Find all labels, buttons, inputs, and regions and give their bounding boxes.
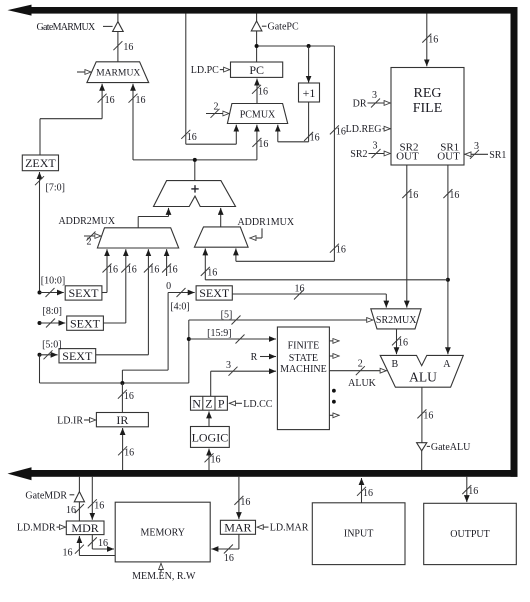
wire ZEXT to MARMUX input1 (40, 84, 115, 155)
sign extender SEXT[8:0] (67, 316, 104, 330)
wire IR output net (horizontal) (40, 355, 189, 385)
wire IR[8:0] tap (38, 306, 66, 327)
svg-text:16: 16 (336, 245, 346, 256)
svg-text:FILE: FILE (413, 101, 443, 116)
svg-text:[5]: [5] (221, 309, 233, 320)
ALU (380, 355, 463, 387)
register ZEXT (22, 155, 58, 171)
register file REG FILE (391, 68, 464, 166)
svg-text:16: 16 (468, 486, 478, 497)
FSM ellipsis dots (332, 389, 336, 404)
svg-text:16: 16 (310, 132, 320, 143)
svg-text:16: 16 (105, 95, 115, 106)
svg-text:16: 16 (94, 500, 104, 511)
svg-text:PC: PC (249, 63, 264, 77)
svg-text:MEM.EN, R.W: MEM.EN, R.W (132, 571, 196, 582)
sign extender SEXT[4:0] (196, 286, 232, 300)
wire IR to net (118, 383, 134, 413)
svg-text:16: 16 (398, 337, 408, 348)
svg-text:2: 2 (358, 358, 363, 369)
wire ADDR2MUX input3 from SEXT[5:0] (96, 249, 160, 355)
wire ADDR2MUX input4 constant 0 (162, 249, 178, 292)
svg-text:MAR: MAR (224, 521, 251, 535)
svg-text:P: P (218, 396, 225, 410)
svg-text:16: 16 (136, 95, 146, 106)
svg-text:[15:9]: [15:9] (207, 328, 231, 339)
wire into incrementer (308, 46, 310, 83)
svg-text:16: 16 (123, 42, 133, 53)
wire MAR to MEMORY (211, 534, 239, 564)
svg-text:0: 0 (166, 281, 171, 292)
wire MDR to MEMORY (88, 535, 114, 550)
svg-text:[10:0]: [10:0] (41, 276, 65, 287)
sign extender SEXT[5:0] (59, 349, 96, 363)
register PC (231, 62, 283, 77)
svg-text:SR2: SR2 (350, 149, 367, 160)
svg-text:GateMARMUX: GateMARMUX (37, 22, 96, 33)
wire bus to LOGIC (205, 449, 221, 470)
svg-text:16: 16 (258, 139, 268, 150)
svg-text:16: 16 (66, 505, 76, 516)
svg-text:16: 16 (108, 265, 118, 276)
svg-text:16: 16 (211, 455, 221, 466)
svg-text:SEXT: SEXT (69, 286, 100, 300)
svg-text:LD.IR: LD.IR (57, 415, 83, 426)
wire MARMUX2-adder-PCMUX2 net (133, 125, 268, 162)
svg-text:INPUT: INPUT (344, 528, 373, 539)
svg-text:A: A (443, 359, 451, 370)
svg-text:3: 3 (474, 141, 479, 152)
wire SR2OUT to SR2MUX (402, 165, 418, 308)
svg-text:LD.MDR: LD.MDR (17, 523, 56, 534)
wire SR2MUX out to ALU B (392, 329, 408, 354)
wire IR[5] to SR2MUX select (189, 309, 373, 324)
svg-text:[8:0]: [8:0] (43, 306, 62, 317)
adder (PC offset adder) (154, 181, 236, 207)
svg-text:DR: DR (353, 98, 367, 109)
condition codes NZP (191, 396, 228, 410)
control LD.PC (191, 65, 230, 76)
bus right segment (511, 7, 518, 477)
wire NZP to FSM (3) (211, 360, 276, 396)
wire bus to MAR (234, 477, 250, 519)
wire +1 out to PCMUX input3 (278, 102, 320, 143)
svg-text:MACHINE: MACHINE (280, 364, 327, 375)
mux SR2MUX (371, 309, 421, 329)
svg-text:3: 3 (373, 141, 378, 152)
svg-text:SEXT: SEXT (70, 316, 101, 330)
mux ADDR1MUX (194, 227, 248, 247)
svg-text:N: N (192, 396, 201, 410)
wire ADDR2MUX input2 from SEXT[8:0] (103, 249, 136, 323)
control MEM.EN, R.W (132, 563, 196, 582)
svg-text:16: 16 (224, 553, 234, 564)
wire ADDR2MUX out to adder (138, 208, 168, 228)
wire IR[15:9]/[5] riser (187, 320, 191, 383)
svg-text:ZEXT: ZEXT (25, 156, 56, 170)
wire INPUT to bus (357, 478, 373, 503)
svg-text:IR: IR (116, 413, 128, 427)
device OUTPUT (424, 503, 517, 564)
svg-text:[7:0]: [7:0] (46, 182, 65, 193)
svg-text:Z: Z (205, 396, 212, 410)
incrementer +1 (299, 83, 320, 102)
tri-state buffer GateMARMUX (103, 14, 133, 62)
svg-text:SEXT: SEXT (62, 349, 93, 363)
svg-text:B: B (391, 359, 398, 370)
svg-text:PCMUX: PCMUX (240, 110, 276, 121)
logic block LOGIC (191, 427, 230, 448)
svg-text:LD.REG: LD.REG (346, 124, 382, 135)
wire IR[10:0] tap (38, 276, 66, 297)
wire IR[4:0] to SEXT (122, 288, 194, 383)
bus top (system bus, arrow left) (8, 5, 518, 16)
mux PCMUX (227, 104, 287, 124)
wire PC to ADDR1MUX input2 (236, 46, 346, 261)
svg-text:[5:0]: [5:0] (42, 339, 61, 350)
wire ALU out to GateALU (417, 387, 433, 443)
svg-text:2: 2 (214, 102, 219, 113)
svg-text:16: 16 (336, 126, 346, 137)
svg-text:16: 16 (168, 265, 178, 276)
svg-text:16: 16 (124, 448, 134, 459)
svg-text:ADDR1MUX: ADDR1MUX (237, 217, 294, 228)
svg-text:16: 16 (127, 265, 137, 276)
mux MARMUX (87, 62, 149, 83)
control DR (3) (353, 90, 391, 109)
svg-text:SR1: SR1 (489, 150, 506, 161)
control ALUK (2) (329, 358, 386, 389)
control LD.CC (229, 399, 273, 410)
FSM output stub 3 (329, 414, 339, 416)
wire adder line to MARMUX input2 (129, 84, 146, 160)
svg-text:FINITE: FINITE (288, 340, 320, 351)
svg-text:SR2MUX: SR2MUX (376, 315, 417, 326)
svg-text:16: 16 (207, 267, 217, 278)
register MAR (220, 520, 255, 534)
svg-text:LD.CC: LD.CC (243, 399, 272, 410)
register MDR (66, 521, 104, 535)
wire LOGIC to NZP (208, 411, 210, 426)
svg-text:ADDR2MUX: ADDR2MUX (58, 216, 115, 227)
wire IR[15:9] to FSM (189, 328, 276, 343)
wire SEXT[4:0] out to SR2MUX (232, 284, 386, 308)
wire bus to REG FILE (422, 14, 438, 67)
svg-text:GateMDR: GateMDR (25, 490, 67, 501)
svg-text:16: 16 (187, 132, 197, 143)
svg-text:16: 16 (428, 35, 438, 46)
svg-text:+1: +1 (303, 86, 316, 100)
tri-state buffer GatePC (251, 14, 266, 64)
svg-text:16: 16 (449, 190, 459, 201)
wire IR[5:0] tap (38, 339, 62, 359)
control LD.IR (57, 415, 96, 426)
bus bottom (system bus, arrow left) (8, 467, 518, 480)
svg-text:OUT: OUT (396, 150, 419, 162)
wire ADDR2MUX input1 from SEXT[10:0] (102, 249, 118, 292)
select input MARMUX (77, 71, 91, 73)
wire MEMORY to MDR (63, 536, 116, 559)
svg-text:16: 16 (258, 87, 268, 98)
svg-text:OUT: OUT (437, 150, 460, 162)
svg-text:R: R (251, 352, 258, 363)
control LD.MDR (17, 523, 66, 534)
svg-text:16: 16 (240, 497, 250, 508)
control SR2 (3) (350, 141, 390, 161)
svg-text:GatePC: GatePC (268, 22, 299, 33)
FSM output stub 2 (329, 355, 339, 357)
wire SR1OUT to ALU A (443, 165, 459, 354)
svg-text:LD.PC: LD.PC (191, 65, 219, 76)
control R into FSM (251, 352, 276, 363)
wire IR[7:0] to ZEXT (35, 172, 65, 293)
mux ADDR2MUX (97, 228, 178, 248)
svg-text:16: 16 (363, 488, 373, 499)
svg-text:16: 16 (408, 190, 418, 201)
svg-text:16: 16 (124, 391, 134, 402)
svg-text:16: 16 (295, 284, 305, 295)
svg-text:MDR: MDR (71, 521, 98, 535)
svg-text:2: 2 (87, 236, 92, 247)
select input ADDR1MUX (250, 228, 263, 238)
svg-text:GateALU: GateALU (431, 442, 471, 453)
control LD.MAR (257, 523, 309, 534)
FSM output stub 1 (329, 340, 339, 342)
control LD.REG (346, 124, 391, 135)
sign extender SEXT[10:0] (65, 286, 102, 300)
control SR1 (3) (465, 141, 507, 161)
svg-text:16: 16 (423, 410, 433, 421)
svg-text:MARMUX: MARMUX (96, 68, 140, 79)
wire bus to OUTPUT (462, 477, 478, 502)
finite state machine FSM (277, 327, 329, 430)
wire bus to MDR (88, 477, 105, 520)
svg-text:LOGIC: LOGIC (192, 430, 229, 444)
wire PC out to +1 and down-tap (255, 44, 335, 48)
svg-text:STATE: STATE (289, 353, 318, 364)
wire SR1OUT to ADDR1MUX input1 (201, 248, 448, 279)
wire bus to IR (118, 428, 134, 470)
register IR (96, 413, 148, 428)
svg-text:SEXT: SEXT (199, 286, 230, 300)
svg-text:3: 3 (372, 90, 377, 101)
svg-text:MEMORY: MEMORY (140, 527, 184, 538)
svg-text:OUTPUT: OUTPUT (450, 529, 489, 540)
svg-text:16: 16 (63, 548, 73, 559)
wire adder output to node (194, 160, 196, 181)
svg-text:REG: REG (414, 86, 442, 101)
select input ADDR2MUX (2) (84, 232, 101, 248)
svg-text:[4:0]: [4:0] (170, 302, 189, 313)
wire bus to PCMUX input1 (181, 14, 236, 145)
memory MEMORY (115, 502, 210, 562)
select input PCMUX (2) (206, 102, 229, 118)
tri-state buffer GateMDR (66, 477, 85, 521)
tri-state buffer GateALU (417, 442, 472, 470)
svg-text:ALU: ALU (409, 369, 437, 384)
svg-text:LD.MAR: LD.MAR (270, 523, 309, 534)
device INPUT (312, 503, 405, 565)
wire ADDR1MUX out to adder (220, 208, 222, 227)
svg-text:16: 16 (149, 265, 159, 276)
svg-text:3: 3 (226, 360, 231, 371)
svg-text:ALUK: ALUK (348, 378, 377, 389)
wire PCMUX out to PC (252, 79, 268, 104)
svg-text:16: 16 (98, 538, 108, 549)
